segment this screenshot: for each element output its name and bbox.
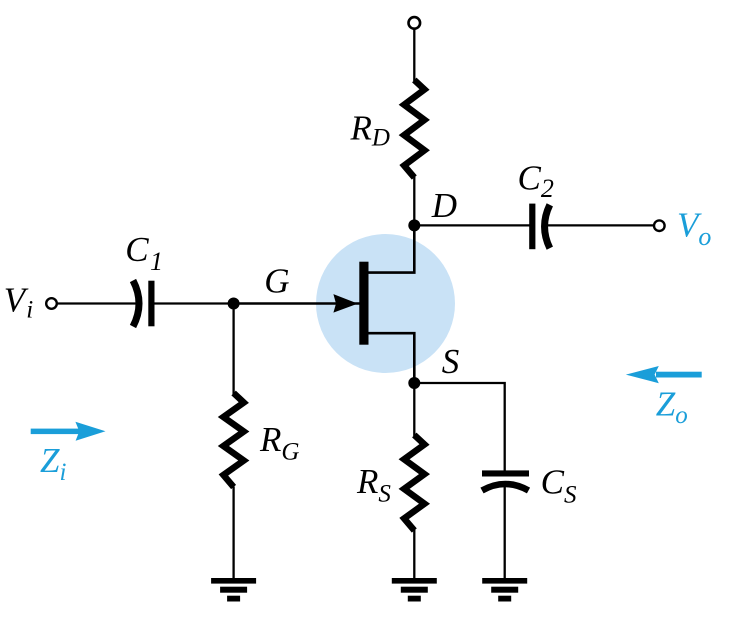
ground under RS	[392, 578, 437, 602]
wire node S to CS	[414, 383, 504, 471]
resistor RS	[404, 435, 424, 530]
wire C1 to node G	[155, 302, 234, 304]
svg-text:G: G	[264, 261, 289, 300]
svg-text:D: D	[431, 186, 457, 225]
arrow Zo	[626, 366, 702, 383]
wire node S to RS	[413, 383, 415, 436]
wire node G to gate arrow	[234, 302, 360, 305]
node S junction dot	[408, 377, 420, 389]
resistor RG	[223, 393, 243, 487]
svg-text:Vi: Vi	[4, 281, 33, 324]
node D junction dot	[408, 219, 420, 231]
JFET halo circle	[316, 234, 455, 373]
wire RS to ground	[413, 530, 415, 579]
wire node D to C2	[414, 224, 529, 226]
terminal Vo (open circle)	[654, 220, 665, 231]
svg-text:Vo: Vo	[677, 205, 711, 251]
wire RG to ground	[232, 487, 234, 579]
capacitor CS	[482, 470, 529, 490]
svg-text:C2: C2	[518, 159, 554, 204]
wire RD to node D	[413, 176, 415, 225]
capacitor C2	[529, 204, 550, 250]
wire C2 to Vo	[547, 224, 654, 226]
transistor Q1 JFET bar	[359, 262, 368, 345]
svg-text:RS: RS	[356, 462, 391, 508]
gate arrowhead	[333, 294, 357, 313]
wire node G down to RG	[232, 304, 234, 395]
terminal VDD (top open circle)	[409, 17, 421, 29]
wire source lead	[368, 333, 414, 383]
ground under RG	[211, 578, 256, 602]
svg-text:CS: CS	[541, 462, 577, 508]
svg-text:RG: RG	[259, 420, 299, 465]
arrow Zi	[31, 422, 106, 441]
svg-text:C1: C1	[125, 230, 163, 276]
ground under CS	[482, 578, 527, 602]
svg-text:Zo: Zo	[656, 385, 688, 430]
wire Vi to C1	[57, 302, 136, 304]
svg-text:RD: RD	[350, 108, 390, 151]
node G junction dot	[228, 298, 240, 310]
resistor RD	[404, 80, 424, 177]
wire node D down to drain lead	[368, 225, 414, 272]
svg-text:S: S	[442, 342, 460, 381]
wire top terminal to RD	[413, 30, 415, 82]
capacitor C1	[133, 281, 155, 327]
terminal Vi (open circle)	[46, 298, 57, 309]
svg-text:Zi: Zi	[40, 441, 66, 486]
wire CS to ground	[504, 487, 506, 578]
